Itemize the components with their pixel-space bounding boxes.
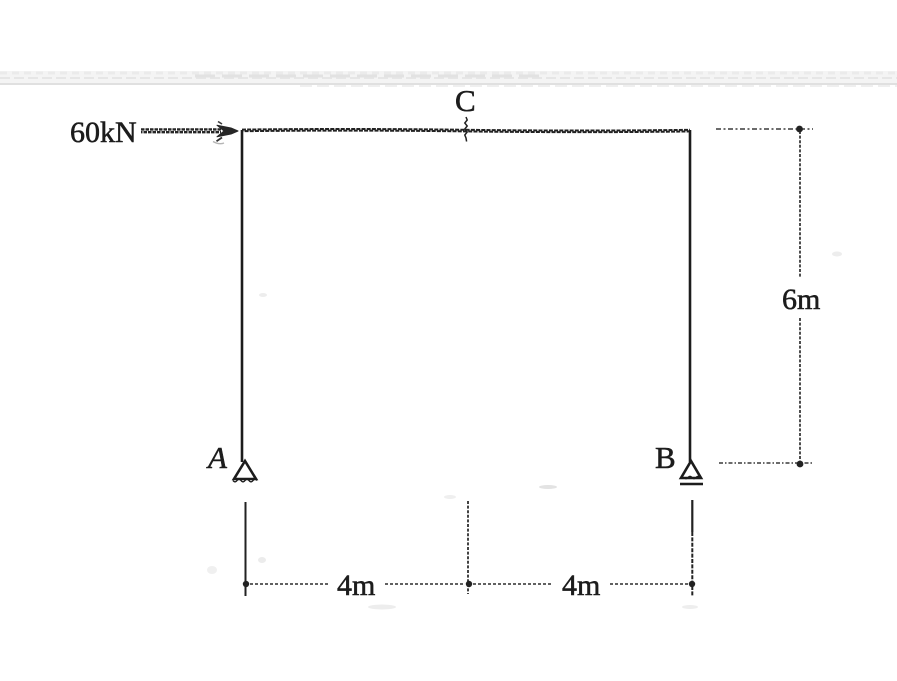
svg-text:6m: 6m: [782, 283, 820, 316]
svg-text:C: C: [455, 83, 476, 118]
svg-text:A: A: [206, 440, 228, 475]
svg-text:60kN: 60kN: [70, 116, 137, 149]
svg-text:B: B: [655, 440, 676, 475]
svg-text:4m: 4m: [562, 569, 600, 602]
svg-text:4m: 4m: [337, 569, 375, 602]
